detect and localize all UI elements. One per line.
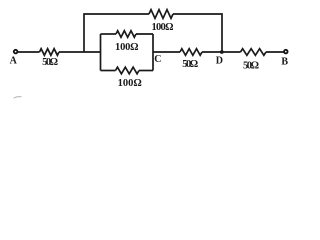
- svg-text:100Ω: 100Ω: [118, 78, 142, 89]
- svg-text:100Ω: 100Ω: [152, 22, 174, 33]
- svg-text:50Ω: 50Ω: [243, 60, 259, 71]
- svg-text:100Ω: 100Ω: [115, 42, 139, 53]
- svg-text:C: C: [154, 54, 161, 65]
- svg-text:A: A: [10, 56, 18, 67]
- svg-text:B: B: [281, 56, 288, 67]
- svg-text:50Ω: 50Ω: [182, 59, 198, 70]
- svg-text:D: D: [216, 56, 223, 67]
- svg-text:50Ω: 50Ω: [42, 57, 58, 68]
